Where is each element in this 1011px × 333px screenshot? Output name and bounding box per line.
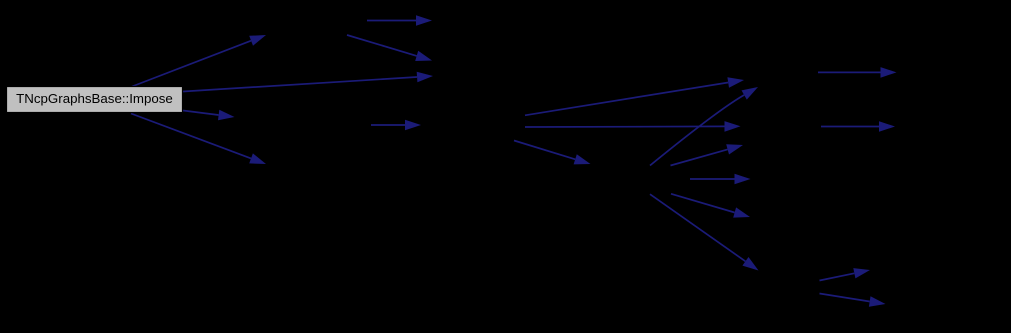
edge: Impose -> node A3 (lower-left fan) — [131, 114, 266, 165]
edge: node B3 -> node C1 (steep curve up) — [650, 87, 758, 166]
edge: node B3 -> node C3 — [671, 144, 744, 165]
edge: node B3 -> node C4 (horizontal) — [690, 174, 751, 185]
edge: node B2 -> node C1 (up-right long) — [525, 77, 744, 115]
edge: node B2 -> node B3 (down-right short) — [514, 141, 591, 165]
edge: node C6 -> node D4 (down-right) — [820, 294, 886, 307]
edge: node B3 -> node C5 — [671, 194, 750, 218]
edge: short horizontal arrow into node B2 — [371, 120, 421, 131]
edge: node C2 -> node D2 (horizontal) — [821, 121, 895, 132]
edge: Impose -> node A1 (upper-left fan) — [132, 35, 266, 87]
svg-text:TNcpGraphsBase::Impose: TNcpGraphsBase::Impose — [16, 91, 173, 106]
edge: col2 top horizontal arrow — [367, 15, 432, 26]
edge: col2 diagonal arrow down-right — [347, 35, 432, 61]
edge: node C6 -> node D3 (up-right) — [820, 268, 871, 280]
edge: node B2 -> node C2 (horizontal) — [525, 121, 741, 132]
edge: Impose -> node A2 (short right) — [183, 110, 235, 121]
edge: Impose -> node B2 (long arrow to col2) — [183, 72, 433, 92]
node Impose (grey box) — [7, 87, 183, 113]
edge: node C1 -> node D1 (horizontal) — [818, 67, 897, 78]
edge: node B3 -> node C6 (long down-right) — [650, 194, 759, 270]
